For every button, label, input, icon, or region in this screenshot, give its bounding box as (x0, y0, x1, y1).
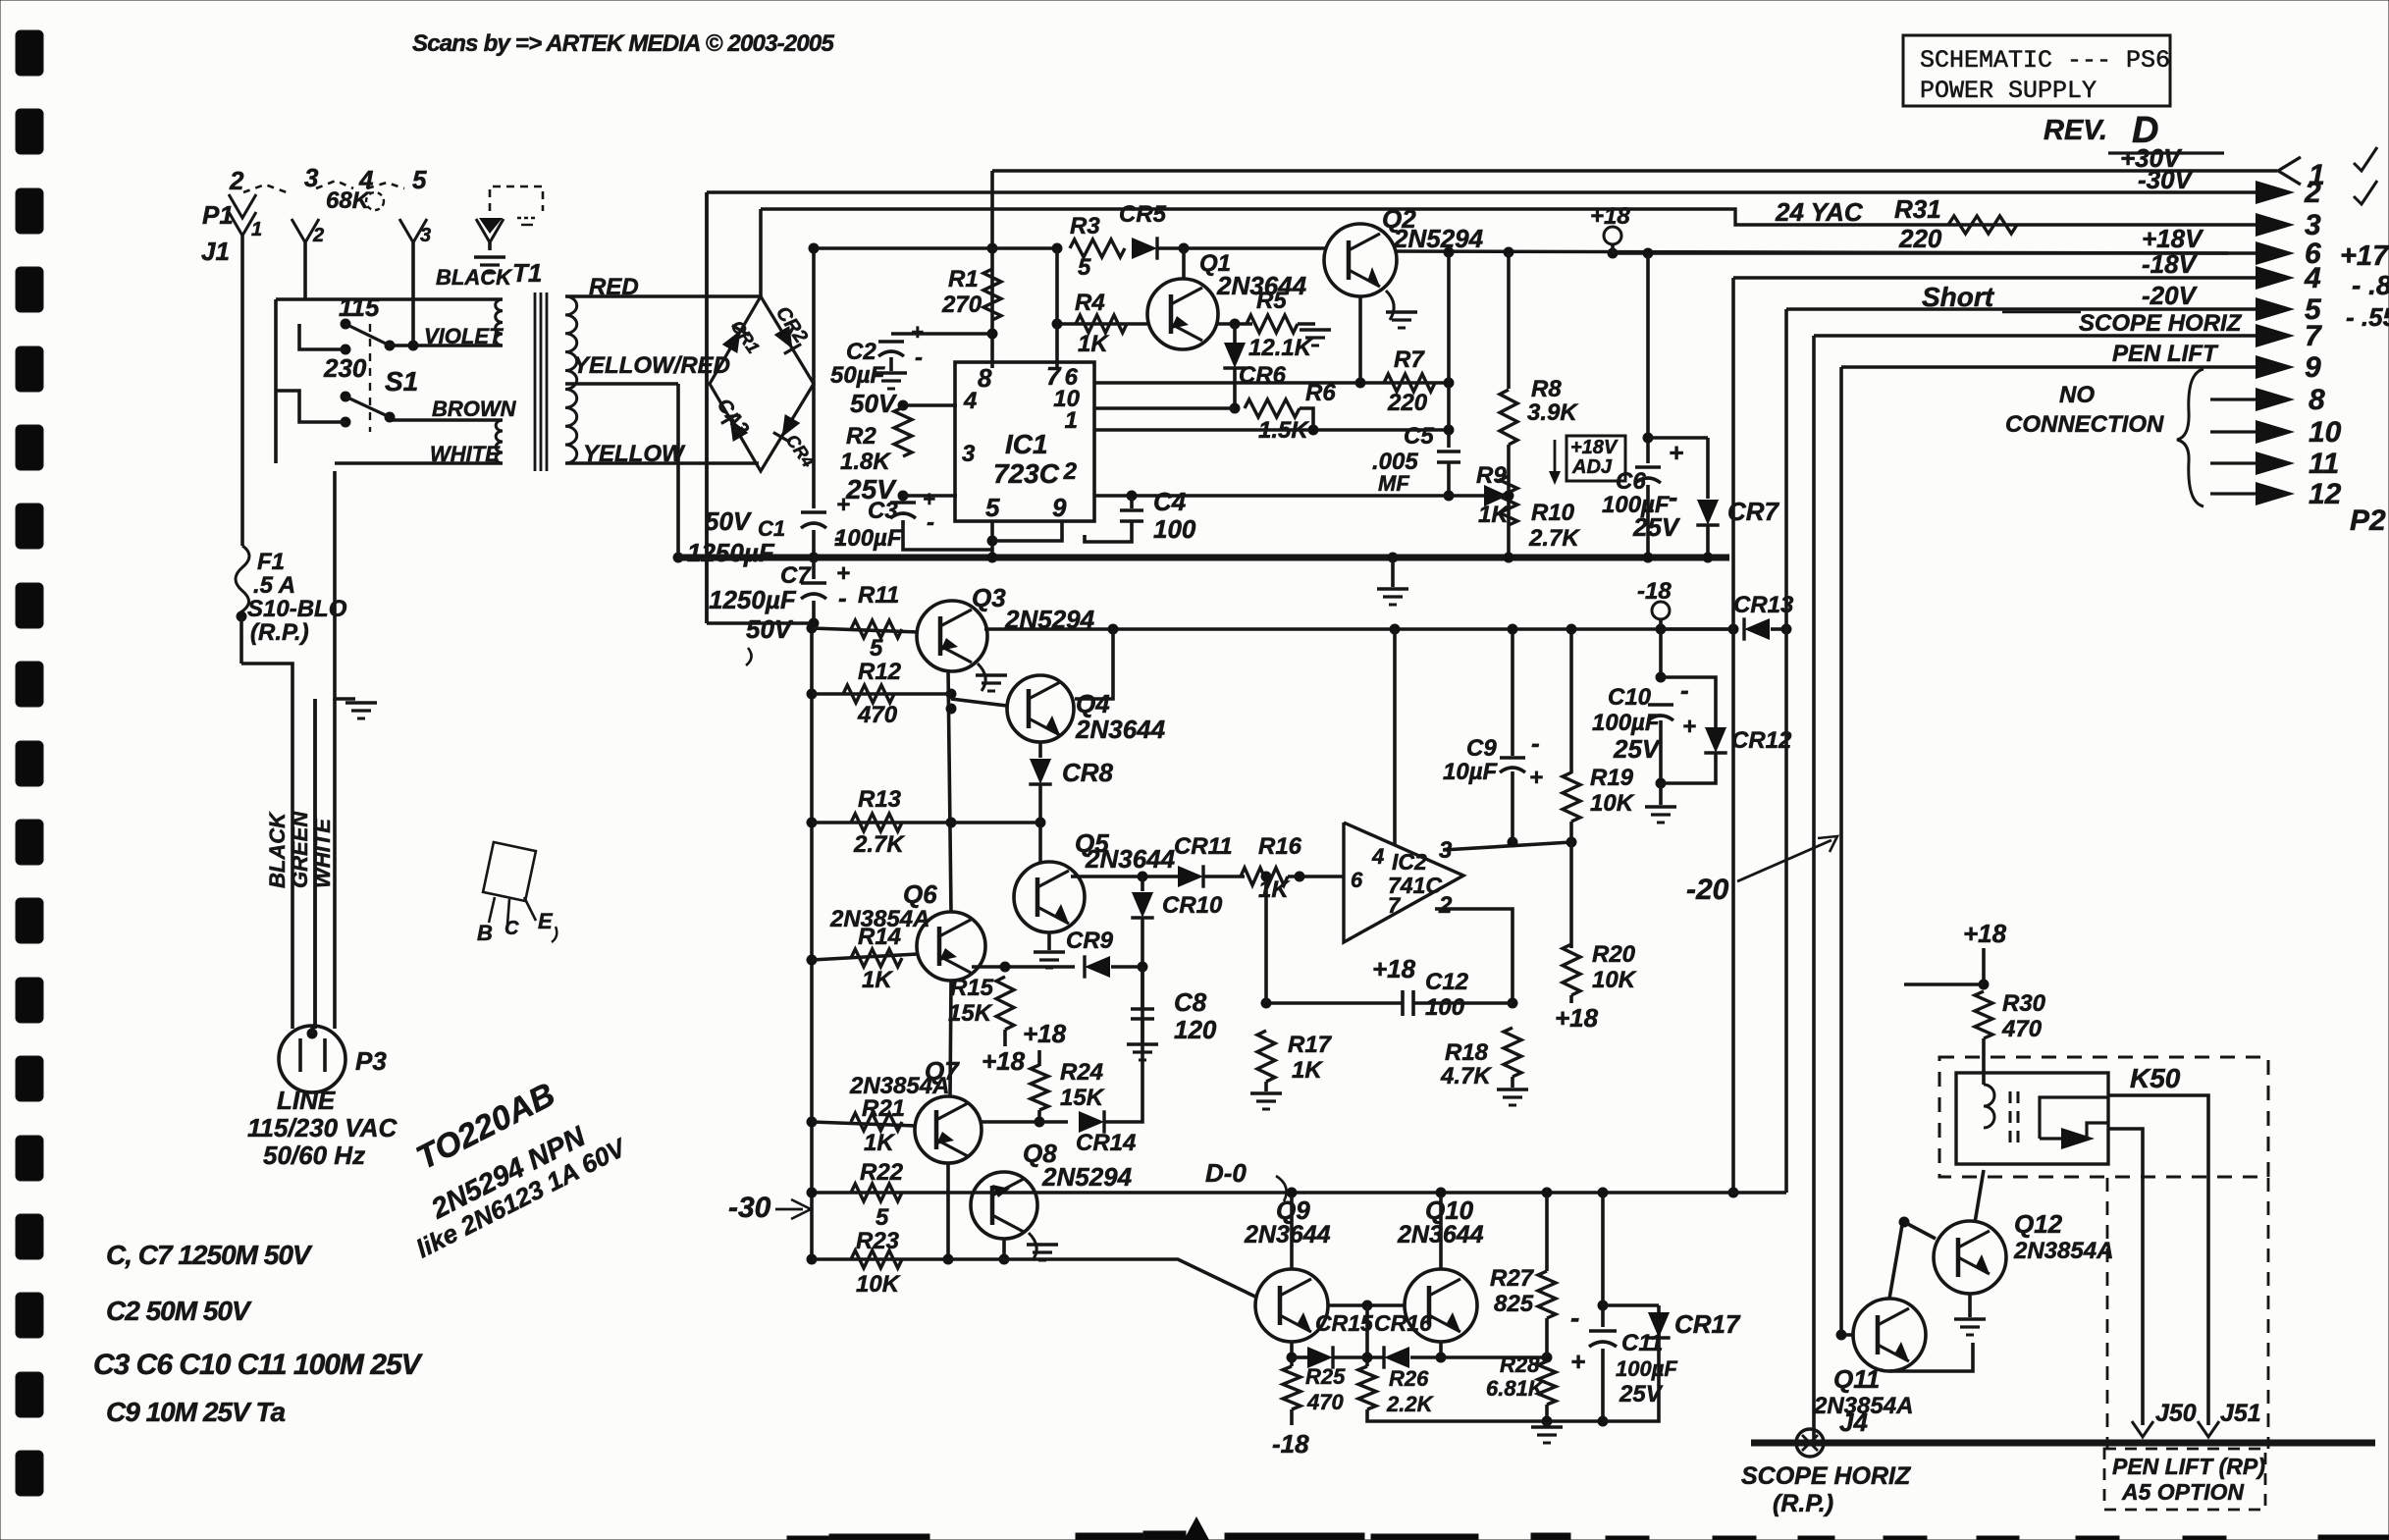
svg-text:CR16: CR16 (1374, 1310, 1432, 1336)
svg-text:BROWN: BROWN (432, 397, 517, 421)
svg-text:220: 220 (1898, 224, 1942, 253)
svg-text:100: 100 (1425, 994, 1465, 1021)
svg-text:10: 10 (2309, 416, 2342, 449)
svg-text:C2: C2 (846, 339, 876, 365)
svg-text:723C: 723C (993, 458, 1060, 489)
svg-text:R2: R2 (846, 423, 876, 450)
svg-text:R4: R4 (1075, 290, 1105, 316)
svg-text:SCOPE HORIZ: SCOPE HORIZ (2079, 310, 2243, 337)
svg-text:CR17: CR17 (1674, 1309, 1741, 1339)
svg-text:5: 5 (985, 493, 1000, 522)
svg-text:.5 A: .5 A (253, 572, 295, 599)
svg-text:F1: F1 (257, 549, 285, 575)
svg-text:3: 3 (420, 225, 431, 246)
svg-text:+: + (911, 320, 924, 345)
svg-text:270: 270 (941, 292, 982, 318)
svg-text:R20: R20 (1592, 941, 1636, 968)
svg-text:J4: J4 (1839, 1407, 1868, 1437)
svg-text:9: 9 (1052, 493, 1067, 522)
svg-text:-30V: -30V (2138, 165, 2195, 194)
svg-text:100: 100 (1153, 514, 1196, 544)
svg-text:VIOLET: VIOLET (424, 324, 504, 348)
svg-text:100µF: 100µF (834, 525, 903, 552)
svg-text:P2: P2 (2350, 504, 2386, 537)
svg-text:R23: R23 (856, 1228, 900, 1254)
svg-text:+18: +18 (1372, 954, 1416, 983)
svg-text:Q12: Q12 (2014, 1209, 2063, 1239)
svg-text:PEN LIFT (RP): PEN LIFT (RP) (2112, 1454, 2265, 1479)
svg-text:R14: R14 (858, 924, 901, 950)
svg-text:-30: -30 (728, 1192, 771, 1224)
svg-text:C4: C4 (1153, 487, 1187, 516)
svg-text:-18: -18 (1637, 578, 1672, 605)
svg-text:C: C (504, 918, 519, 939)
svg-text:825: 825 (1494, 1291, 1534, 1317)
svg-text:4: 4 (1371, 844, 1384, 869)
svg-text:R12: R12 (858, 659, 902, 685)
svg-text:470: 470 (857, 702, 898, 728)
svg-text:R5: R5 (1256, 288, 1287, 314)
svg-text:50V: 50V (746, 614, 794, 644)
svg-text:R3: R3 (1070, 213, 1100, 239)
svg-text:CR5: CR5 (1119, 201, 1167, 228)
svg-text:-: - (838, 583, 847, 612)
svg-text:2N3644: 2N3644 (1244, 1221, 1331, 1248)
svg-text:+18V: +18V (1570, 437, 1619, 458)
svg-text:1.8K: 1.8K (840, 449, 891, 475)
svg-text:50V: 50V (850, 389, 898, 418)
svg-text:230: 230 (323, 353, 367, 383)
svg-text:C3 C6 C10 C11 100M 25V: C3 C6 C10 C11 100M 25V (93, 1349, 424, 1381)
svg-text:12: 12 (2309, 478, 2342, 510)
svg-text:15K: 15K (1060, 1085, 1105, 1111)
svg-text:11: 11 (2309, 448, 2339, 480)
svg-text:7: 7 (1388, 893, 1402, 918)
svg-text:P3: P3 (355, 1046, 387, 1076)
svg-text:2: 2 (1438, 892, 1453, 919)
svg-text:C, C7 1250M 50V: C, C7 1250M 50V (106, 1240, 313, 1270)
svg-text:+: + (923, 487, 935, 511)
svg-text:1K: 1K (1078, 331, 1109, 357)
svg-text:10K: 10K (1590, 790, 1635, 817)
svg-text:2: 2 (312, 225, 324, 246)
svg-text:2N5294: 2N5294 (1041, 1162, 1133, 1192)
svg-text:-: - (1570, 1302, 1579, 1333)
svg-text:CR6: CR6 (1239, 362, 1287, 389)
svg-text:C3: C3 (868, 498, 898, 524)
svg-text:NO: NO (2059, 382, 2095, 408)
svg-text:IC1: IC1 (1005, 429, 1048, 459)
svg-text:+18: +18 (1963, 919, 2007, 948)
svg-text:BLACK: BLACK (265, 811, 290, 888)
svg-text:J1: J1 (201, 237, 230, 266)
svg-text:R22: R22 (860, 1159, 904, 1186)
svg-text:CR7: CR7 (1727, 497, 1780, 526)
svg-text:25V: 25V (1619, 1381, 1664, 1407)
svg-text:115/230 VAC: 115/230 VAC (247, 1113, 398, 1142)
svg-text:2.2K: 2.2K (1386, 1392, 1435, 1416)
svg-text:1K: 1K (862, 967, 893, 993)
svg-text:Short: Short (1922, 282, 1995, 312)
svg-text:R25: R25 (1305, 1364, 1346, 1389)
svg-text:J51: J51 (2220, 1400, 2261, 1427)
svg-text:5: 5 (1078, 254, 1091, 281)
svg-text:25V: 25V (1632, 512, 1681, 542)
svg-text:+: + (1669, 438, 1683, 467)
svg-text:+: + (1570, 1347, 1585, 1376)
svg-text:-: - (1669, 482, 1677, 512)
svg-text:100µF: 100µF (1616, 1356, 1677, 1381)
svg-text:-: - (927, 509, 934, 536)
svg-text:R9: R9 (1476, 462, 1507, 489)
svg-text:CR9: CR9 (1066, 928, 1114, 954)
svg-text:CR8: CR8 (1062, 758, 1114, 787)
svg-text:LINE: LINE (277, 1086, 336, 1115)
svg-text:7: 7 (2305, 320, 2322, 352)
svg-text:R8: R8 (1531, 376, 1562, 402)
svg-text:3: 3 (962, 441, 976, 467)
svg-text:2N3854A: 2N3854A (849, 1073, 949, 1099)
svg-text:K50: K50 (2130, 1063, 2181, 1093)
svg-text:15K: 15K (948, 1000, 993, 1027)
svg-text:6: 6 (1351, 868, 1363, 892)
svg-text:2N3644: 2N3644 (1075, 715, 1166, 744)
svg-text:- .55: - .55 (2346, 302, 2389, 332)
svg-text:220: 220 (1387, 390, 1428, 416)
svg-text:R17: R17 (1288, 1032, 1333, 1058)
svg-text:5: 5 (412, 165, 427, 194)
svg-text:R15: R15 (950, 975, 994, 1001)
svg-text:T1: T1 (512, 258, 542, 288)
svg-text:100µF: 100µF (1592, 710, 1661, 736)
svg-text:C9: C9 (1466, 735, 1497, 762)
svg-text:Q3: Q3 (972, 583, 1006, 612)
svg-text:C11: C11 (1621, 1330, 1663, 1356)
svg-text:4.7K: 4.7K (1440, 1063, 1492, 1089)
svg-text:4: 4 (963, 388, 977, 414)
svg-text:115: 115 (339, 292, 380, 322)
svg-text:2N5294: 2N5294 (1393, 224, 1484, 253)
svg-text:R16: R16 (1258, 833, 1302, 860)
svg-text:1250µF: 1250µF (687, 538, 775, 567)
svg-text:1250µF: 1250µF (709, 585, 797, 614)
svg-text:CR15: CR15 (1315, 1310, 1374, 1336)
svg-text:2: 2 (229, 166, 244, 195)
svg-text:A5 OPTION: A5 OPTION (2121, 1479, 2244, 1505)
svg-text:8: 8 (2309, 384, 2325, 416)
svg-text:68K: 68K (326, 187, 371, 214)
svg-text:CR10: CR10 (1162, 892, 1223, 919)
svg-text:C8: C8 (1174, 987, 1207, 1017)
svg-text:R30: R30 (2002, 990, 2046, 1017)
svg-text:1K: 1K (1292, 1057, 1323, 1084)
svg-text:CR12: CR12 (1731, 727, 1792, 754)
svg-text:(R.P.): (R.P.) (1773, 1490, 1833, 1517)
svg-text:R24: R24 (1060, 1059, 1103, 1086)
svg-text:C5: C5 (1404, 423, 1434, 450)
svg-text:120: 120 (1174, 1015, 1217, 1044)
svg-text:R19: R19 (1590, 765, 1634, 791)
svg-text:Q11: Q11 (1833, 1364, 1880, 1394)
svg-text:+: + (1529, 765, 1543, 791)
svg-text:S1: S1 (385, 366, 418, 397)
svg-text:R11: R11 (858, 582, 899, 609)
svg-text:ADJ: ADJ (1571, 456, 1613, 478)
svg-text:10K: 10K (856, 1271, 901, 1298)
svg-text:R7: R7 (1394, 346, 1425, 373)
svg-text:C9 10M 25V Ta: C9 10M 25V Ta (106, 1397, 285, 1427)
svg-text:R26: R26 (1389, 1366, 1429, 1391)
svg-text:6.81K: 6.81K (1486, 1376, 1546, 1401)
svg-text:470: 470 (1306, 1390, 1344, 1414)
svg-text:R1: R1 (948, 266, 979, 292)
svg-text:R18: R18 (1445, 1039, 1489, 1066)
svg-text:50µF: 50µF (830, 362, 886, 389)
svg-text:5: 5 (870, 635, 883, 662)
svg-text:1: 1 (1065, 407, 1078, 434)
svg-text:4: 4 (2304, 262, 2321, 294)
svg-text:CONNECTION: CONNECTION (2005, 411, 2164, 438)
svg-text:S10-BLO: S10-BLO (247, 596, 347, 622)
svg-text:C10: C10 (1608, 684, 1652, 711)
svg-text:10µF: 10µF (1443, 759, 1499, 785)
svg-text:9: 9 (2305, 351, 2321, 384)
svg-text:470: 470 (2001, 1016, 2043, 1042)
svg-text:25V: 25V (1613, 734, 1662, 764)
svg-text:WHITE: WHITE (430, 442, 501, 466)
svg-text:+17.9: +17.9 (2340, 240, 2389, 272)
svg-text:2.7K: 2.7K (1528, 525, 1580, 552)
svg-text:-20V: -20V (2142, 281, 2199, 310)
svg-text:D-0: D-0 (1205, 1158, 1247, 1188)
svg-text:REV.: REV. (2044, 115, 2107, 146)
svg-text:WHITE: WHITE (310, 818, 335, 888)
svg-text:C6: C6 (1616, 468, 1646, 495)
svg-text:SCHEMATIC --- PS6: SCHEMATIC --- PS6 (1920, 46, 2170, 75)
svg-text:GREEN: GREEN (288, 811, 312, 888)
svg-text:24 YAC: 24 YAC (1775, 197, 1864, 227)
svg-text:12.1K: 12.1K (1248, 335, 1313, 361)
svg-text:1K: 1K (864, 1130, 895, 1156)
svg-text:-18: -18 (1272, 1429, 1309, 1459)
svg-text:PEN LIFT: PEN LIFT (2112, 341, 2219, 367)
svg-text:B: B (477, 921, 493, 945)
svg-text:50/60 Hz: 50/60 Hz (263, 1141, 365, 1170)
svg-text:2N3644: 2N3644 (1085, 844, 1176, 874)
svg-text:Q6: Q6 (903, 879, 937, 909)
svg-text:8: 8 (978, 363, 992, 393)
svg-text:BLACK: BLACK (436, 265, 513, 290)
svg-text:R13: R13 (858, 786, 902, 813)
svg-text:CR14: CR14 (1076, 1130, 1136, 1156)
svg-text:R21: R21 (862, 1095, 905, 1122)
svg-text:10K: 10K (1592, 967, 1637, 993)
svg-text:CR11: CR11 (1174, 833, 1233, 860)
svg-text:+: + (1682, 714, 1696, 740)
svg-text:J50: J50 (2155, 1400, 2197, 1427)
svg-text:+18: +18 (1590, 203, 1630, 230)
svg-text:IC2: IC2 (1392, 849, 1427, 875)
svg-text:2.7K: 2.7K (853, 831, 905, 858)
svg-text:50V: 50V (705, 506, 753, 536)
svg-text:C2 50M 50V: C2 50M 50V (106, 1296, 252, 1326)
svg-text:+18: +18 (982, 1046, 1026, 1076)
svg-text:MF: MF (1378, 471, 1409, 496)
svg-text:-20: -20 (1686, 874, 1729, 906)
svg-text:+18: +18 (1555, 1003, 1599, 1033)
svg-text:2N3854A: 2N3854A (2013, 1238, 2113, 1264)
svg-text:-: - (915, 345, 923, 371)
svg-text:R6: R6 (1305, 380, 1336, 406)
svg-text:R27: R27 (1490, 1265, 1535, 1292)
svg-text:SCOPE HORIZ: SCOPE HORIZ (1741, 1462, 1912, 1490)
svg-text:-: - (1531, 728, 1540, 758)
svg-text:POWER SUPPLY: POWER SUPPLY (1920, 77, 2097, 105)
svg-text:5: 5 (876, 1204, 889, 1231)
svg-text:- .8: - .8 (2352, 270, 2389, 300)
svg-text:C12: C12 (1425, 969, 1469, 995)
svg-text:1: 1 (251, 219, 262, 240)
svg-text:(R.P.): (R.P.) (250, 619, 309, 646)
svg-text:2: 2 (1063, 458, 1078, 485)
svg-text:Scans by => ARTEK MEDIA © 200: Scans by => ARTEK MEDIA © 2003-2005 (412, 30, 834, 57)
svg-text:2: 2 (2304, 177, 2321, 209)
svg-text:E: E (538, 909, 554, 933)
svg-text:-: - (1680, 675, 1689, 705)
svg-text:3.9K: 3.9K (1527, 399, 1578, 426)
svg-text:R10: R10 (1531, 500, 1575, 526)
svg-text:R28: R28 (1500, 1353, 1540, 1377)
svg-text:+18: +18 (1023, 1019, 1067, 1048)
svg-text:R31: R31 (1894, 194, 1941, 224)
